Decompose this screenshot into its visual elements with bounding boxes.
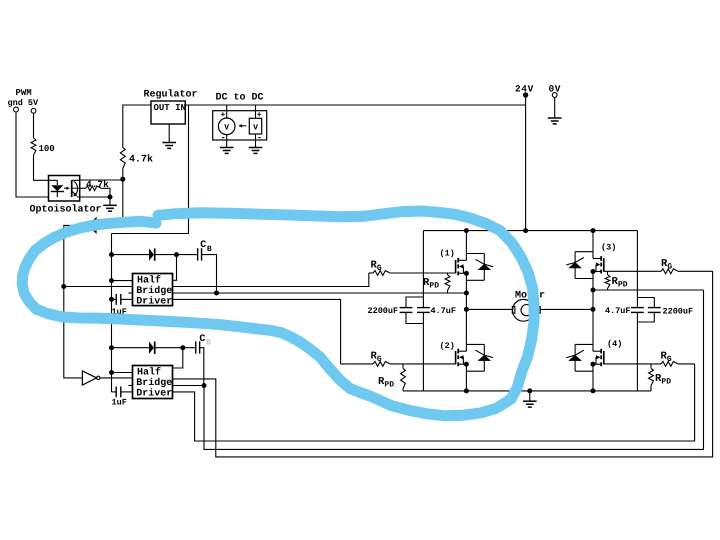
- wire bootstrap diode 1 anode: [112, 254, 150, 256]
- svg-text:PD: PD: [384, 381, 394, 390]
- label driver 2 Driver: [136, 388, 172, 400]
- junction phase M3: [591, 288, 596, 293]
- capacitor 4.7uF left: [417, 308, 430, 313]
- svg-text:B: B: [207, 245, 212, 254]
- wire regulator IN drop: [112, 105, 189, 234]
- label 4.7uF left: [431, 306, 457, 316]
- label 2200uF right: [663, 307, 694, 317]
- svg-text:Driver: Driver: [136, 295, 172, 307]
- wire right cap branch: [636, 231, 638, 391]
- wire driver supply vertical: [111, 234, 113, 392]
- wire diode 2 to CB2: [155, 347, 196, 349]
- label Regulator: [144, 89, 198, 101]
- dc-dc output V rect: [249, 105, 262, 143]
- wire phase down to motor tap: [465, 293, 467, 309]
- wire driver1 input line: [64, 286, 133, 288]
- junction bootstrap 2: [180, 345, 185, 350]
- wire M1 drain: [465, 231, 467, 261]
- wire PWM gnd to optoisolator: [16, 112, 49, 197]
- resistor RG2: [373, 362, 390, 367]
- junction M2 source: [464, 362, 469, 367]
- half bridge driver 1 box: [133, 274, 173, 306]
- label RPD2: [378, 376, 394, 390]
- junction ground rail: [527, 388, 532, 393]
- svg-text:-: -: [257, 133, 262, 143]
- transistor Q2 mosfet: [456, 349, 467, 366]
- half bridge driver 2 box: [133, 366, 173, 399]
- terminal PWM 5V: [31, 108, 36, 113]
- wire opto base: [80, 187, 86, 189]
- svg-text:Half: Half: [137, 274, 161, 286]
- label (1): [440, 249, 455, 259]
- pin stub driver1: [128, 292, 132, 294]
- svg-text:(4): (4): [607, 339, 622, 349]
- svg-text:OUT IN: OUT IN: [154, 103, 186, 113]
- wire driver2 phase route: [173, 290, 704, 449]
- ground opto emitter: [103, 197, 117, 211]
- svg-text:G: G: [667, 263, 672, 272]
- wire M4 source to rail: [592, 364, 594, 391]
- svg-text:B: B: [206, 339, 211, 348]
- capacitor 2200uF right: [637, 298, 660, 323]
- dc-dc arrow: [239, 124, 247, 128]
- wire M1 source to phase: [465, 273, 467, 293]
- wire base resistor to emitter: [101, 188, 110, 197]
- svg-text:Half: Half: [137, 367, 161, 379]
- zener Z3: [566, 252, 593, 279]
- resistor RG3: [661, 269, 678, 274]
- junction opto emitter: [108, 195, 113, 200]
- diode D1 bootstrap: [149, 248, 155, 260]
- svg-text:V: V: [224, 124, 229, 133]
- wire driver1 low gate out: [173, 299, 341, 364]
- label 1uF driver2: [112, 398, 127, 408]
- wire driver2 vdd pin: [112, 372, 133, 374]
- label RG2: [371, 351, 382, 365]
- regulator U2 box: [151, 101, 185, 124]
- wire motor left: [466, 308, 513, 310]
- junction CB2 phase pin: [202, 383, 207, 388]
- junction CB1 phase: [214, 291, 219, 296]
- label (2): [440, 341, 455, 351]
- node gnd / 5V labels: [8, 98, 40, 108]
- wire driver1 high gate out: [173, 273, 369, 287]
- capacitor 1uF driver1: [112, 294, 133, 305]
- svg-text:G: G: [377, 355, 382, 364]
- label 2200uF left: [368, 306, 399, 316]
- wire M3 gate line: [604, 270, 661, 272]
- svg-text:4.7k: 4.7k: [129, 154, 153, 166]
- resistor 4.7k base: [86, 186, 102, 191]
- wire driver2 low gate route: [173, 364, 695, 441]
- wire RG4 to edge: [678, 363, 695, 365]
- capacitor 1uF driver2: [112, 387, 133, 398]
- svg-text:Regulator: Regulator: [144, 89, 198, 101]
- wire bridge top rail: [423, 230, 637, 232]
- transistor Q4 mosfet: [593, 349, 604, 366]
- transistor Q3 mosfet: [593, 256, 604, 273]
- label Optoisolator: [30, 204, 102, 216]
- wire bootstrap pin 2: [173, 348, 183, 368]
- wire opto emitter: [77, 196, 110, 198]
- wire left cap branch: [422, 231, 424, 391]
- resistor RG4: [661, 362, 678, 367]
- svg-text:Bridge: Bridge: [136, 285, 172, 297]
- junction bootstrap 1: [174, 252, 179, 257]
- junction motor left: [464, 307, 469, 312]
- label driver 1 Half: [137, 274, 161, 286]
- svg-text:(2): (2): [440, 341, 455, 351]
- svg-text:PWM: PWM: [16, 88, 32, 98]
- wire resistor 100 to optoisolator anode: [34, 155, 58, 180]
- zener Z4: [566, 344, 593, 371]
- node 24V label: [515, 84, 534, 95]
- resistor RPD3: [605, 271, 610, 290]
- optoisolator LED: [51, 180, 70, 197]
- label CB1: [200, 240, 212, 254]
- svg-text:2200uF: 2200uF: [368, 306, 399, 316]
- wire 24V down to bridge rail: [525, 95, 527, 231]
- svg-text:2200uF: 2200uF: [663, 307, 694, 317]
- ground bridge: [523, 391, 537, 407]
- dc-dc source V circle: [218, 105, 235, 143]
- highlight loop (blue marker): [22, 211, 534, 416]
- junction M3 source: [591, 269, 596, 274]
- junction supply driver2 vdd: [109, 370, 114, 375]
- resistor RPD1: [445, 273, 450, 293]
- svg-text:gnd 5V: gnd 5V: [8, 98, 40, 108]
- svg-text:100: 100: [39, 144, 55, 154]
- svg-text:PD: PD: [618, 281, 628, 290]
- label RPD1: [423, 277, 439, 291]
- junction supply driver1 vdd: [109, 278, 114, 283]
- svg-text:Driver: Driver: [136, 388, 172, 400]
- svg-text:C: C: [199, 334, 205, 345]
- wire driver2 high gate route: [173, 271, 713, 457]
- dc-dc converter box: [213, 111, 267, 140]
- wire inverter B to driver2: [100, 377, 133, 379]
- label Motor: [515, 291, 545, 302]
- label 4.7uF right: [605, 306, 631, 316]
- label (3): [601, 243, 616, 253]
- terminal 24V: [523, 92, 528, 97]
- svg-text:+: +: [221, 111, 226, 120]
- wire 4.7k to collector junction: [122, 169, 124, 181]
- label DC to DC: [216, 93, 264, 104]
- node PWM label: [16, 88, 32, 98]
- svg-text:Bridge: Bridge: [136, 377, 172, 389]
- resistor RPD2: [401, 364, 406, 391]
- wire diode 1 to CB1: [155, 254, 198, 256]
- junction phase M1: [464, 291, 469, 296]
- svg-text:G: G: [667, 355, 672, 364]
- wire bridge bottom rail: [403, 390, 651, 392]
- capacitor 4.7uF right: [631, 308, 644, 313]
- wire RG1 to M1 gate: [369, 272, 456, 274]
- wire 24V rail top: [185, 104, 525, 106]
- wire phase down to motor right: [592, 290, 594, 309]
- label RG3: [661, 258, 672, 272]
- junction supply diode 2: [109, 345, 114, 350]
- pin stub driver2: [128, 385, 132, 387]
- wire CB1 to phase: [202, 255, 217, 293]
- label 1uF driver1: [112, 307, 127, 317]
- label RG4: [661, 351, 672, 365]
- zener Z2: [466, 344, 493, 371]
- svg-text:+: +: [257, 111, 262, 120]
- terminal 0V: [552, 93, 557, 98]
- wire M3 source to phase: [592, 272, 594, 291]
- svg-text:4.7uF: 4.7uF: [605, 306, 631, 316]
- wire inverter A out down: [64, 225, 85, 378]
- wire bootstrap diode 2 anode: [112, 347, 150, 349]
- wire motor right: [540, 308, 593, 310]
- optoisolator phototransistor: [72, 180, 80, 197]
- label CB2: [199, 334, 211, 348]
- transistor Q1 mosfet: [456, 258, 467, 275]
- wire collector to inverter A: [96, 180, 123, 225]
- diode D2 bootstrap: [149, 342, 155, 354]
- junction collector pullup: [120, 177, 125, 182]
- junction rail M3: [591, 228, 596, 233]
- inverter B (to driver2): [82, 371, 100, 385]
- wire M2 source to rail: [465, 364, 467, 391]
- wire regulator OUT: [123, 105, 151, 148]
- wire right phase line: [593, 289, 704, 291]
- wire RG2 to M2 gate: [341, 363, 456, 365]
- svg-text:(3): (3): [601, 243, 616, 253]
- motor M1 symbol: [512, 299, 540, 321]
- label RG1: [371, 260, 382, 274]
- label RPD3: [612, 276, 628, 290]
- label (4): [607, 339, 622, 349]
- svg-text:G: G: [377, 264, 382, 273]
- label OUT IN: [154, 103, 186, 113]
- node 0V label: [549, 84, 562, 95]
- label driver 2 Bridge: [136, 377, 172, 389]
- svg-text:1uF: 1uF: [112, 398, 127, 408]
- svg-text:C: C: [200, 240, 206, 251]
- wire M3 drain: [592, 231, 594, 259]
- label RPD4: [655, 373, 671, 387]
- svg-text:V: V: [253, 123, 258, 132]
- resistor RG1: [373, 271, 390, 276]
- capacitor CB1: [198, 248, 202, 260]
- inverter A (to driver1): [85, 218, 96, 232]
- wire RG3 to edge: [678, 270, 713, 272]
- capacitor CB2: [196, 341, 200, 353]
- junction input tap: [61, 284, 66, 289]
- wire M4 gate line: [604, 363, 661, 365]
- label driver 2 Half: [137, 367, 161, 379]
- label driver 1 Bridge: [136, 285, 172, 297]
- junction supply cap1: [109, 297, 114, 302]
- junction M4 source: [591, 362, 596, 367]
- wire M4 drain: [592, 309, 594, 351]
- ground 0V: [548, 97, 562, 124]
- wire driver1 phase line: [173, 292, 467, 294]
- label 4.7k base: [86, 179, 109, 190]
- optoisolator U1 box: [49, 176, 80, 202]
- wire bootstrap pin 1: [173, 255, 177, 281]
- junction M2 rail: [464, 388, 469, 393]
- junction M1 source: [464, 271, 469, 276]
- label 100: [39, 144, 55, 154]
- ground dc-dc right: [249, 134, 263, 153]
- wire CB2 down to phase pin: [200, 348, 204, 386]
- wire M2 drain: [465, 309, 467, 351]
- zener Z1: [466, 254, 493, 281]
- svg-text:(1): (1): [440, 249, 455, 259]
- ground dc-dc left: [220, 135, 234, 154]
- svg-text:4.7uF: 4.7uF: [431, 306, 457, 316]
- svg-text:PD: PD: [661, 378, 671, 387]
- junction supply diode 1: [109, 252, 114, 257]
- terminal PWM gnd: [14, 107, 19, 112]
- junction M4 rail: [591, 388, 596, 393]
- wire opto collector: [80, 179, 123, 181]
- wire 5V to resistor 100: [33, 113, 35, 138]
- svg-text:-: -: [221, 133, 226, 143]
- junction 24V rail: [523, 228, 528, 233]
- label driver 1 Driver: [136, 295, 172, 307]
- svg-text:PD: PD: [429, 282, 439, 291]
- svg-text:Optoisolator: Optoisolator: [30, 204, 102, 216]
- capacitor 2200uF left: [400, 297, 424, 324]
- junction motor right: [591, 307, 596, 312]
- ground regulator: [162, 124, 176, 148]
- resistor 100: [31, 138, 36, 155]
- wire driver1 vdd pin: [112, 280, 133, 282]
- junction rail M1: [464, 228, 469, 233]
- resistor 4.7k pullup: [120, 148, 125, 169]
- resistor RPD4: [649, 364, 654, 391]
- label 4.7k pullup: [129, 154, 153, 166]
- svg-text:DC to DC: DC to DC: [216, 93, 264, 104]
